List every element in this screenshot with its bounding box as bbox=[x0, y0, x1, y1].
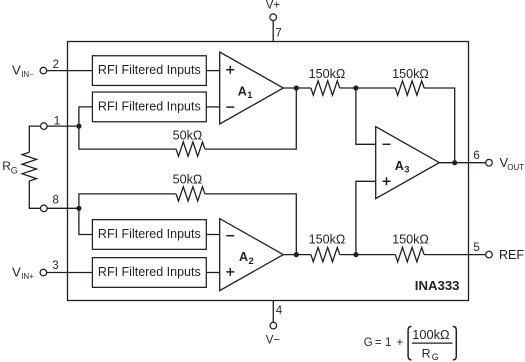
svg-text:50kΩ: 50kΩ bbox=[173, 128, 203, 142]
wire RG top to pin1 bbox=[29, 126, 40, 152]
svg-text:50kΩ: 50kΩ bbox=[173, 172, 203, 186]
svg-text:2: 2 bbox=[53, 59, 59, 71]
svg-text:V+: V+ bbox=[266, 0, 281, 12]
RFI filter block 3 bbox=[92, 220, 206, 250]
svg-text:RFI Filtered Inputs: RFI Filtered Inputs bbox=[98, 265, 201, 279]
svg-text:A: A bbox=[239, 250, 248, 264]
pin 8 terminal bbox=[41, 195, 59, 212]
wire node J1 to RFI box 2 input bbox=[79, 107, 93, 126]
resistor 150k R5 (bottom left) bbox=[309, 232, 346, 261]
svg-text:RFI Filtered Inputs: RFI Filtered Inputs bbox=[98, 227, 201, 241]
pin 6 VOUT terminal bbox=[473, 150, 524, 172]
svg-text:G: G bbox=[432, 352, 439, 362]
svg-text:2: 2 bbox=[249, 255, 254, 266]
svg-text:INA333: INA333 bbox=[415, 278, 460, 293]
svg-text:1: 1 bbox=[247, 89, 252, 100]
gain equation G = 1 + [100k/RG] bbox=[364, 326, 457, 362]
node N5 (A3 output) bbox=[452, 160, 457, 165]
wire A2 output to node N2 bbox=[283, 254, 311, 256]
svg-text:150kΩ: 150kΩ bbox=[309, 67, 346, 81]
svg-text:7: 7 bbox=[275, 28, 281, 40]
svg-text:OUT: OUT bbox=[507, 163, 524, 172]
pin 3 VIN+ terminal bbox=[12, 260, 59, 281]
node N4 bbox=[353, 252, 358, 257]
IC outline box bbox=[68, 42, 469, 301]
node N1 bbox=[294, 85, 299, 90]
wire RG bottom to pin8 bbox=[29, 181, 40, 208]
node J1 bbox=[76, 124, 81, 129]
svg-text:G=1+: G=1+ bbox=[364, 337, 404, 349]
svg-text:5: 5 bbox=[473, 242, 479, 254]
wire 150k R5 to node N4 bbox=[340, 254, 396, 256]
svg-text:150kΩ: 150kΩ bbox=[392, 67, 429, 81]
svg-text:R: R bbox=[422, 347, 431, 361]
wire pin3 to RFI box 4 bbox=[47, 272, 93, 274]
svg-text:V: V bbox=[12, 63, 21, 78]
resistor 150k R4 (top right) bbox=[392, 67, 429, 95]
svg-text:3: 3 bbox=[404, 164, 409, 175]
resistor RG bbox=[2, 152, 36, 181]
part label INA333 bbox=[415, 278, 460, 293]
wire pin8 to node J8 bbox=[47, 207, 79, 209]
wire A1 output to node N1 bbox=[283, 87, 311, 89]
wire node N3 to A3 inverting input bbox=[356, 88, 376, 144]
wire node J8 to RFI box 3 input bbox=[79, 208, 93, 234]
wire 50k R2 to node N2 bbox=[205, 194, 296, 255]
svg-text:V−: V− bbox=[266, 334, 281, 346]
svg-text:V: V bbox=[12, 264, 21, 279]
op-amp A2 bbox=[220, 219, 284, 291]
pin 1 terminal bbox=[41, 116, 61, 130]
resistor 50k R1 bbox=[173, 128, 205, 156]
wire node N4 to A3 non-inverting input bbox=[356, 181, 376, 254]
resistor 150k R3 (top left) bbox=[309, 67, 346, 95]
svg-text:4: 4 bbox=[276, 305, 283, 317]
svg-text:IN−: IN− bbox=[21, 70, 34, 79]
RFI filter block 4 bbox=[92, 258, 206, 288]
op-amp A1 bbox=[220, 52, 284, 124]
resistor 50k R2 bbox=[173, 172, 205, 201]
pin 2 VIN- terminal bbox=[12, 59, 59, 79]
feedback wire node J1 to 50k R1 to node N1 bbox=[79, 126, 176, 149]
node J8 bbox=[76, 206, 81, 211]
svg-text:RFI Filtered Inputs: RFI Filtered Inputs bbox=[98, 100, 201, 114]
wire 150k R3 to node N3 bbox=[340, 87, 396, 89]
RFI filter block 2 bbox=[92, 92, 206, 122]
svg-text:G: G bbox=[11, 166, 18, 176]
svg-text:RFI Filtered Inputs: RFI Filtered Inputs bbox=[98, 63, 201, 77]
resistor 150k R6 (bottom right, to REF) bbox=[392, 232, 429, 261]
node N2 bbox=[294, 252, 299, 257]
wire RFI1 to A1 + bbox=[206, 70, 219, 72]
wire 150k R6 to pin 5 bbox=[424, 254, 486, 256]
op-amp A3 bbox=[376, 127, 440, 199]
svg-text:6: 6 bbox=[473, 150, 479, 162]
wire A3 output to pin 6 bbox=[439, 162, 485, 164]
feedback wire node J8 to 50k R2 bbox=[79, 194, 176, 208]
svg-text:8: 8 bbox=[53, 195, 59, 207]
RFI filter block 1 bbox=[92, 56, 206, 86]
wire 150k R4 down to A3 output node bbox=[424, 88, 455, 163]
svg-text:150kΩ: 150kΩ bbox=[392, 232, 429, 246]
svg-text:REF: REF bbox=[499, 248, 524, 262]
wire RFI4 to A2 + bbox=[206, 272, 219, 274]
pin 5 REF terminal bbox=[473, 242, 524, 262]
wire RFI2 to A1 - bbox=[206, 106, 219, 108]
svg-text:100kΩ: 100kΩ bbox=[412, 327, 450, 342]
pin 4 V- terminal bbox=[266, 301, 283, 347]
wire pin1 to node J1 bbox=[47, 125, 79, 127]
svg-text:A: A bbox=[395, 159, 404, 173]
svg-text:3: 3 bbox=[52, 260, 58, 272]
svg-text:IN+: IN+ bbox=[21, 272, 34, 281]
wire RFI3 to A2 - bbox=[206, 234, 219, 236]
wire pin2 to RFI box 1 bbox=[47, 70, 93, 72]
svg-text:A: A bbox=[238, 84, 247, 98]
svg-text:150kΩ: 150kΩ bbox=[309, 232, 346, 246]
node N3 bbox=[353, 85, 358, 90]
pin 7 V+ terminal bbox=[266, 0, 282, 41]
wire 50k R1 to node N1 bbox=[205, 88, 296, 149]
